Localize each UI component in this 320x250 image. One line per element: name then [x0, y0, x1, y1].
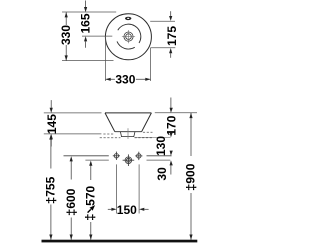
svg-text:150: 150 — [117, 203, 137, 217]
svg-text:‡900: ‡900 — [183, 163, 198, 191]
svg-text:175: 175 — [165, 26, 179, 46]
svg-text:130: 130 — [154, 136, 168, 156]
svg-text:145: 145 — [45, 114, 59, 134]
svg-text:570: 570 — [84, 185, 98, 205]
svg-text:30: 30 — [155, 167, 169, 181]
svg-text:‡: ‡ — [83, 214, 98, 221]
svg-text:165: 165 — [79, 13, 93, 33]
svg-text:330: 330 — [115, 72, 135, 86]
svg-text:330: 330 — [59, 25, 73, 45]
svg-text:‡600: ‡600 — [63, 188, 78, 216]
svg-text:‡755: ‡755 — [43, 176, 58, 204]
